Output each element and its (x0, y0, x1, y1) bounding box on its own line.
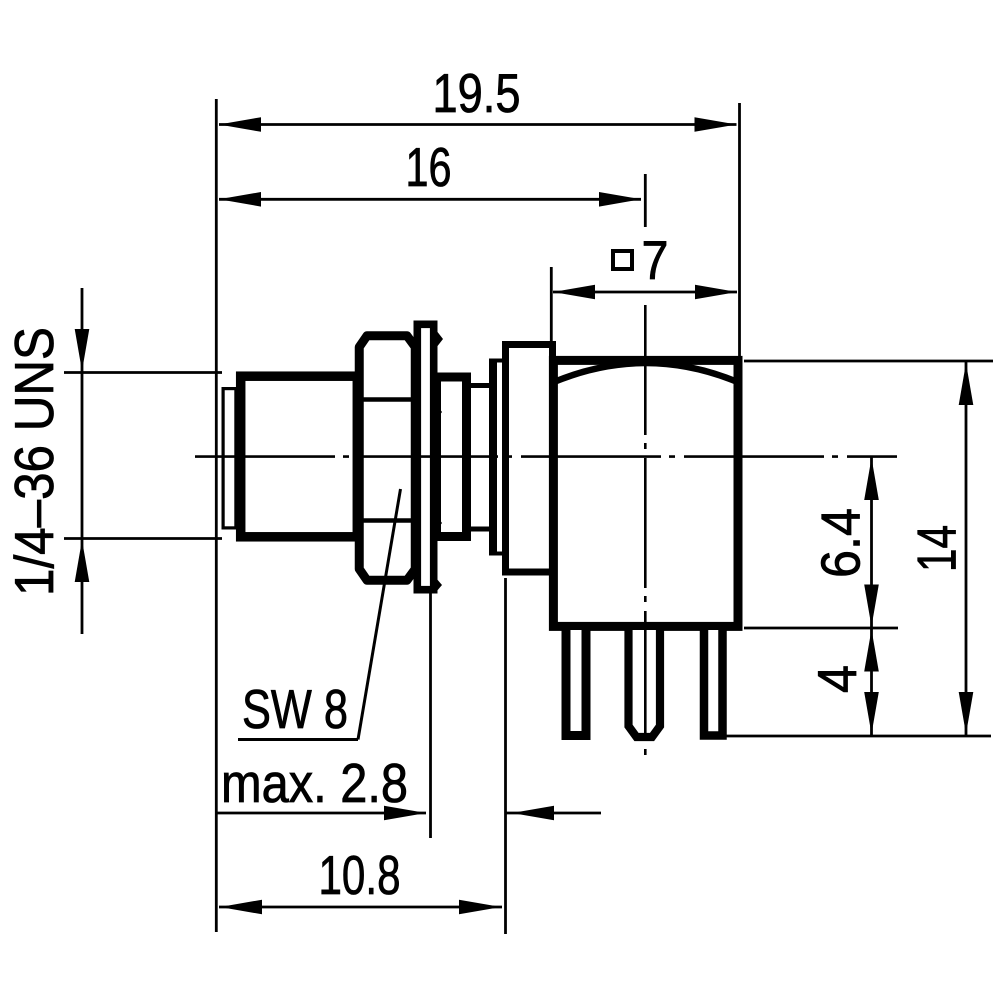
mounting flange (506, 345, 553, 573)
dimension 14 (965, 361, 968, 736)
square body 7x7 (553, 360, 738, 626)
threaded barrel 1/4-36 UNS (241, 376, 358, 537)
extension line square body left (550, 267, 553, 357)
svg-text:10.8: 10.8 (319, 844, 401, 906)
cylinder A (thread behind panel) (437, 377, 467, 537)
SW 8 underline (238, 738, 358, 741)
dimension 16 (219, 198, 641, 201)
dimension max. 2.8 (216, 812, 426, 815)
pin right (704, 630, 723, 736)
svg-text:6.4: 6.4 (810, 508, 872, 578)
extension line body top right (744, 360, 993, 363)
pin left (566, 630, 586, 736)
hex nut face line upper (358, 397, 417, 402)
extension line thread top (64, 371, 222, 374)
dimension 1/4-36 UNS (81, 288, 84, 634)
dimension 19.5 (219, 123, 737, 126)
extension line 16 (body axis) (644, 174, 647, 227)
extension line washer face (max 2.8) (429, 592, 432, 838)
extension line left face (long) (215, 99, 218, 932)
svg-text:7: 7 (642, 229, 669, 291)
hex nut SW8 (359, 336, 415, 581)
dimension 6.4 (870, 457, 873, 736)
extension line right face 19.5 (738, 103, 741, 358)
cylinder B (neck) (469, 386, 492, 530)
extension line thread bottom (64, 537, 222, 540)
square symbol (613, 251, 632, 269)
svg-text:19.5: 19.5 (433, 62, 521, 124)
dimension square 7 (553, 291, 737, 294)
centerline horizontal (195, 455, 897, 458)
extension line pins bottom (726, 735, 991, 738)
hex nut face line lower (358, 518, 417, 523)
pin middle (629, 630, 661, 737)
extension line flange face (10.8) (504, 578, 507, 934)
svg-text:1/4–36 UNS: 1/4–36 UNS (3, 327, 65, 596)
washer teeth (436, 330, 443, 348)
extension line body bottom right (744, 627, 898, 630)
svg-text:14: 14 (906, 525, 968, 572)
collar ring (491, 361, 504, 554)
centerline vertical (644, 305, 647, 758)
svg-text:SW 8: SW 8 (242, 678, 348, 740)
dome arc inside body (554, 363, 738, 382)
SW 8 leader (358, 489, 401, 740)
dimension 10.8 (219, 906, 502, 909)
collar ring left edge (489, 359, 497, 556)
svg-text:max. 2.8: max. 2.8 (221, 752, 408, 814)
lock washer (417, 324, 433, 589)
svg-text:4: 4 (806, 665, 868, 693)
dimension 4 (864, 630, 879, 672)
connector tip (plug pin end) (223, 389, 236, 528)
svg-text:16: 16 (406, 136, 452, 198)
